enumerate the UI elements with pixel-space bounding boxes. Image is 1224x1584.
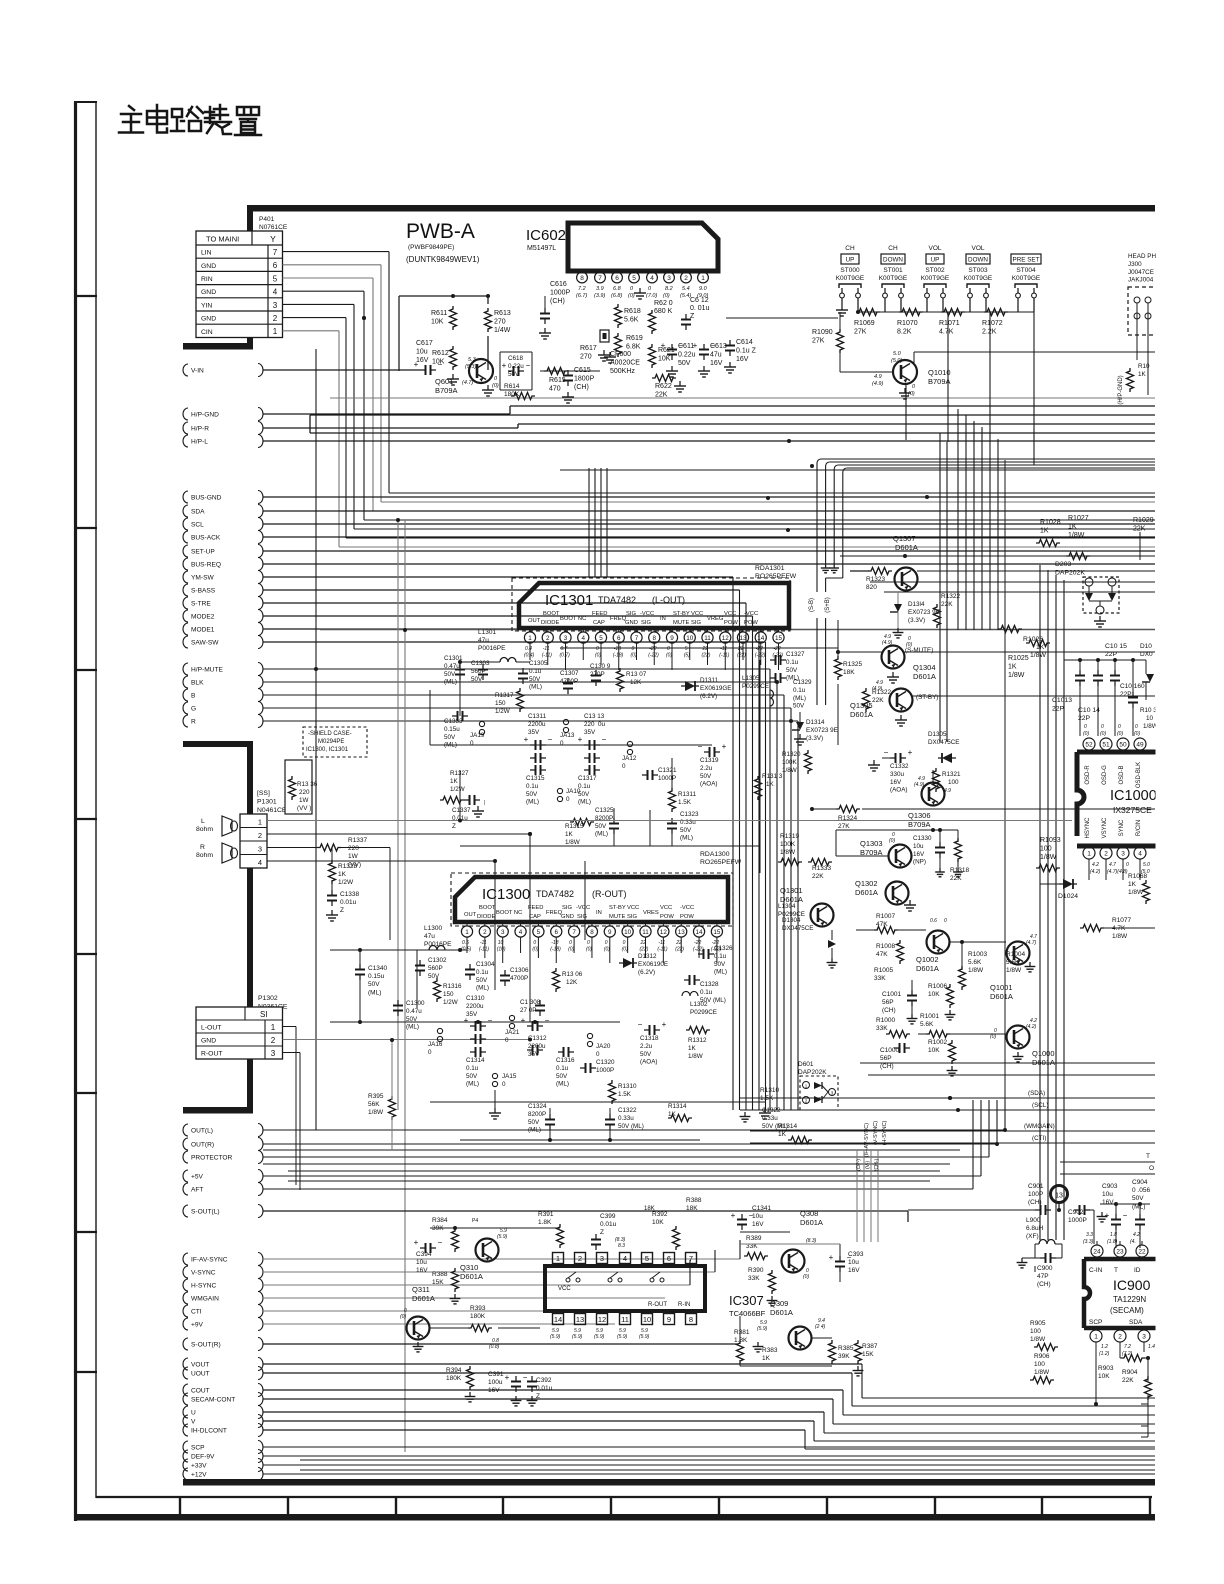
resistor R1316 150 1/2W [434,978,463,1006]
svg-text:16V: 16V [752,1221,764,1228]
wire SCL line [740,1102,1155,1112]
svg-text:(22): (22) [675,947,684,953]
svg-text:R1310: R1310 [618,1083,637,1090]
svg-text:−: − [638,1020,643,1029]
svg-text:(S-B): (S-B) [809,598,815,612]
svg-text:35V: 35V [528,729,540,736]
svg-text:22: 22 [1138,1248,1146,1255]
svg-text:0.33u: 0.33u [618,1115,634,1122]
switch ST003 K00T9GE [964,245,993,298]
svg-text:CH: CH [888,245,898,252]
svg-text:R1072: R1072 [982,320,1003,327]
svg-text:3: 3 [271,1049,276,1058]
capacitor C391 100u 16V [488,1371,528,1406]
svg-text:6.8: 6.8 [613,286,622,292]
svg-text:7: 7 [572,929,576,936]
svg-text:D601A: D601A [916,964,939,973]
svg-text:JA19: JA19 [470,732,485,739]
resistor R1068 1K 1/8W [1128,873,1163,904]
svg-text:D1304: D1304 [782,917,801,924]
connector J300 HEAD PHONE jack [1118,253,1162,405]
svg-text:0.1u: 0.1u [476,969,489,976]
svg-text:(CH): (CH) [880,1063,894,1070]
svg-text:16V: 16V [416,357,429,364]
svg-text:H-SYNC: H-SYNC [191,1282,217,1289]
svg-text:560P: 560P [428,965,443,972]
wire C901 feed [908,1209,1035,1211]
capacitor C1326 0.1u 50V (ML) [698,945,733,976]
svg-text:(-18): (-18) [550,947,561,953]
svg-text:5: 5 [645,1254,649,1263]
capacitor C392 0.01u Z [527,1376,553,1406]
transistor Q1307 [895,568,1156,591]
svg-text:3: 3 [1121,850,1125,857]
svg-text:560P: 560P [471,668,486,675]
svg-text:(0): (0) [595,653,601,659]
svg-text:-VCC: -VCC [744,611,758,617]
svg-text:50V: 50V [714,961,726,968]
terminal UOUT [183,1367,263,1380]
svg-text:C10 15: C10 15 [1105,643,1127,650]
svg-text:R1311: R1311 [678,791,697,798]
svg-text:500KHz: 500KHz [610,368,635,375]
svg-text:EX06190E: EX06190E [638,961,668,968]
svg-text:RIN: RIN [201,276,213,283]
svg-text:(L-OUT): (L-OUT) [652,595,685,605]
terminal H-SYNC [183,1279,263,1292]
diode D203 DAP202K [1055,561,1119,627]
svg-text:(1.8): (1.8) [1107,1239,1118,1245]
transistor Q1305 D601A (ST-BY) [850,680,1155,726]
terminal VOUT [183,1358,263,1371]
capacitor C1341 10u 16V [731,1205,772,1230]
svg-text:0: 0 [623,940,626,946]
resistor R388 15K [432,1268,460,1304]
svg-text:R1314: R1314 [668,1103,687,1110]
svg-text:-VCC: -VCC [680,905,694,911]
svg-text:R1027: R1027 [1068,515,1089,522]
svg-text:R1321: R1321 [942,771,961,778]
svg-text:OUT: OUT [464,912,477,918]
svg-text:8ohm: 8ohm [196,826,213,833]
resistor R617 270 [540,345,600,371]
transistor Q1301 D601A [780,886,834,927]
resistor R1073 [1127,363,1151,392]
svg-text:1/8W: 1/8W [1112,933,1128,940]
svg-text:2: 2 [684,275,688,282]
svg-text:D601A: D601A [855,888,878,897]
resistor R1072 2.2K [982,309,1008,336]
svg-text:D10: D10 [1140,643,1152,650]
diode D1024 [1040,879,1078,900]
wire WMGAIN line [750,1123,1155,1131]
svg-text:R1312: R1312 [688,1037,707,1044]
svg-text:50V: 50V [368,981,380,988]
svg-text:16V: 16V [1102,1199,1114,1206]
svg-text:(4.9): (4.9) [872,686,883,692]
resistor R1001 5.6K [920,1013,950,1038]
svg-text:0: 0 [470,740,474,747]
resistor R905 100 1/8W [1030,1320,1084,1351]
resistor R618 5.6K [615,304,641,328]
svg-text:(0): (0) [1117,731,1123,737]
terminal S-TRE [183,597,263,610]
svg-text:27K: 27K [838,823,850,830]
svg-text:10: 10 [1146,715,1154,722]
svg-text:−: − [548,735,553,744]
capacitor C1302 560P 50V [415,957,447,980]
capacitor C1330 10u 16V (NP) [913,830,945,877]
svg-text:R1068: R1068 [1128,873,1148,880]
svg-text:H/P-MUTE: H/P-MUTE [191,666,223,673]
svg-text:R13 36: R13 36 [297,781,318,788]
svg-text:−: − [698,742,703,751]
svg-text:CF600: CF600 [610,351,631,358]
svg-text:1: 1 [528,635,532,642]
terminal H/P-L [183,435,263,448]
svg-text:DIODE: DIODE [477,914,495,920]
svg-text:1K: 1K [338,871,347,878]
terminal IH-DLCONT [183,1424,263,1437]
svg-text:(5.9): (5.9) [497,1234,508,1240]
svg-text:C1303: C1303 [471,660,490,667]
wire S-OUT(L) [263,1211,908,1222]
resistor R1314b 1K [778,1123,812,1144]
svg-text:C1321: C1321 [658,767,677,774]
svg-text:47u: 47u [710,352,722,359]
terminal +33V [183,1459,263,1472]
svg-text:Q1307: Q1307 [893,534,916,543]
svg-text:R-IN: R-IN [678,1302,690,1308]
capacitor C1329 0.1u (ML) 50V [770,673,812,710]
svg-text:27K: 27K [812,338,825,345]
svg-text:L-OUT: L-OUT [201,1025,221,1032]
svg-text:1/8W: 1/8W [782,767,797,774]
svg-text:D601A: D601A [1032,1058,1055,1067]
svg-text:1.5K: 1.5K [760,1095,774,1102]
svg-text:(CP-): (CP-) [856,1159,862,1171]
wire mute lines [838,620,1155,745]
svg-text:4: 4 [650,275,654,282]
capacitor C1016 22P [1120,660,1145,736]
svg-text:C1332: C1332 [890,763,909,770]
svg-text:VCC: VCC [627,905,639,911]
svg-text:R1320: R1320 [782,751,801,758]
resistor R1325 18K [835,656,863,680]
svg-text:4: 4 [273,288,278,297]
svg-text:5.6K: 5.6K [968,959,982,966]
svg-text:SIG: SIG [691,620,701,626]
svg-text:0.15u: 0.15u [444,726,460,733]
svg-text:SIG: SIG [577,914,587,920]
svg-text:TC4066BF: TC4066BF [729,1309,766,1318]
capacitor C1000 56P (CH) [880,1043,910,1070]
svg-text:R1090: R1090 [812,329,833,336]
svg-text:12: 12 [722,635,730,642]
svg-text:4.7: 4.7 [1109,862,1116,868]
svg-text:R612: R612 [432,350,449,357]
svg-text:7: 7 [598,275,602,282]
wire bundle H/P group [263,398,1155,441]
terminal G [183,702,263,715]
svg-text:10u: 10u [416,349,428,356]
svg-text:R1004: R1004 [1006,951,1026,958]
svg-text:ST004: ST004 [1016,267,1036,274]
resistor R612 10K [432,346,459,385]
transistor Q1002 D601A [916,918,950,973]
svg-text:16V: 16V [710,360,723,367]
resistor R1328 1K 1/2W [329,848,358,887]
svg-text:C130 9: C130 9 [590,663,611,670]
svg-text:(6.2V): (6.2V) [700,693,717,700]
resistor R1004 5.6K 1/8W [1006,951,1026,974]
svg-text:(CH): (CH) [574,384,589,391]
svg-text:TDA7482: TDA7482 [598,595,636,605]
svg-text:35V: 35V [466,1011,478,1018]
svg-text:R1029: R1029 [1133,517,1154,524]
svg-text:0: 0 [1101,724,1104,730]
svg-text:D203: D203 [1055,561,1071,568]
svg-text:1: 1 [1094,1333,1098,1340]
wire bundle bottom right [1148,1414,1155,1416]
svg-text:S-OUT(L): S-OUT(L) [191,1208,220,1215]
svg-text:Q310: Q310 [460,1263,478,1272]
resistor R1025 1K 1/8W [1008,640,1050,680]
svg-text:(3.9): (3.9) [594,293,605,299]
svg-text:3.3: 3.3 [1086,1232,1093,1238]
capacitor C1314 0.1u 50V (ML) [466,1047,486,1088]
resistor R1090 27K [812,312,844,353]
svg-text:R13 07: R13 07 [626,671,647,678]
resistor R1008 47K [876,940,904,964]
terminal H/P-R [183,422,263,435]
svg-text:10: 10 [686,635,694,642]
svg-text:H/P-GND: H/P-GND [191,411,219,418]
svg-text:1.8: 1.8 [1110,1232,1117,1238]
svg-text:150: 150 [495,700,506,707]
svg-text:FEED: FEED [528,905,543,911]
svg-text:ST-BY: ST-BY [609,905,626,911]
svg-text:C614: C614 [736,339,753,346]
jumper JA20 [587,1033,610,1058]
svg-text:R394: R394 [446,1367,462,1374]
svg-text:(0.7): (0.7) [560,653,571,659]
svg-text:22P: 22P [1120,691,1132,698]
svg-text:EX0723 9E: EX0723 9E [806,727,838,734]
svg-text:RO265PEFW: RO265PEFW [755,573,797,580]
svg-text:R1001: R1001 [920,1013,940,1020]
svg-text:1: 1 [273,327,278,336]
svg-text:JA21: JA21 [505,1029,520,1036]
terminal B [183,689,263,702]
svg-text:IC1300: IC1300 [482,886,530,903]
svg-text:D601A: D601A [800,1218,823,1227]
svg-text:6: 6 [667,1254,671,1263]
capacitor C904 0.056 50V (ML) [1132,1179,1150,1248]
svg-text:J0047CE: J0047CE [1128,269,1154,276]
svg-text:0: 0 [587,940,590,946]
svg-text:OSD-R: OSD-R [1085,765,1091,785]
svg-text:(4.9): (4.9) [882,640,893,646]
svg-text:(0): (0) [889,838,895,844]
svg-text:C613: C613 [710,343,727,350]
svg-text:IX3275CE: IX3275CE [1113,805,1152,815]
svg-text:5: 5 [685,646,688,652]
resistor R390 33K [748,1267,777,1306]
svg-text:Z: Z [600,1229,604,1236]
svg-text:R388: R388 [432,1271,448,1278]
svg-text:1/2W: 1/2W [443,999,458,1006]
svg-text:10u: 10u [913,843,924,850]
svg-text:BOOT NC: BOOT NC [560,616,586,622]
svg-text:(ML): (ML) [680,835,693,842]
svg-text:+12V: +12V [191,1471,207,1478]
svg-text:R1000: R1000 [876,1017,896,1024]
transistor Q1302 D601A [855,879,916,911]
svg-text:(5.9): (5.9) [617,1334,628,1340]
svg-text:8.2: 8.2 [665,286,673,292]
svg-text:T: T [1114,1267,1118,1274]
labels vertical sync nets [864,1120,888,1157]
svg-text:R906: R906 [1034,1353,1050,1360]
svg-text:2: 2 [483,929,487,936]
svg-text:9: 9 [670,635,674,642]
svg-text:8: 8 [590,929,594,936]
svg-text:5.6K: 5.6K [624,317,639,324]
resistor R1071 4.7K [939,309,965,336]
svg-text:YIN: YIN [201,302,212,309]
svg-text:R-OUT: R-OUT [201,1051,223,1058]
svg-text:2200u: 2200u [528,721,546,728]
svg-text:VREG: VREG [707,616,724,622]
svg-text:C1320: C1320 [596,1059,615,1066]
svg-text:R131 3: R131 3 [762,773,783,780]
resistor R1319 100K 1/8W [778,833,802,866]
svg-text:10K: 10K [652,1219,664,1226]
svg-text:DOWN: DOWN [968,257,988,264]
svg-text:7: 7 [635,635,639,642]
terminal BLK [183,676,263,689]
wire T/O stub labels [1060,1153,1155,1174]
svg-text:(CTI): (CTI) [1032,1135,1046,1142]
svg-text:5.6K: 5.6K [1006,959,1020,966]
svg-text:UOUT: UOUT [191,1370,210,1377]
svg-text:(0): (0) [631,653,637,659]
svg-text:CTI: CTI [191,1308,202,1315]
svg-text:ST001: ST001 [883,267,903,274]
svg-text:L1305: L1305 [742,675,760,682]
diode D1314 EX0723 (3.3V) zener [890,592,940,638]
svg-text:CAP: CAP [593,620,605,626]
svg-text:0: 0 [1118,724,1121,730]
svg-text:5: 5 [537,929,541,936]
svg-text:15: 15 [775,635,783,642]
svg-text:0.47u: 0.47u [444,663,460,670]
resistor R389 33K [744,1235,768,1260]
capacitor C1309 270P [590,663,611,686]
svg-text:R1314: R1314 [778,1123,798,1130]
terminal H/P-GND [183,408,263,421]
svg-text:(4.7): (4.7) [1026,940,1037,946]
IC900 top pins 24-22 [1083,1232,1148,1257]
svg-text:V-SYNC: V-SYNC [191,1269,216,1276]
svg-text:(IF-AV-SYNC): (IF-AV-SYNC) [864,1123,870,1157]
svg-text:R1319: R1319 [780,833,800,840]
svg-text:IC1000: IC1000 [1110,788,1157,804]
svg-text:7: 7 [689,1254,693,1263]
svg-text:-22: -22 [694,940,701,946]
svg-text:BOOT: BOOT [543,611,560,617]
svg-text:49: 49 [1136,741,1144,748]
switch ST000 K00T9GE [836,245,865,298]
svg-text:C1013: C1013 [1052,697,1072,704]
capacitor C399 0.01u Z [591,1213,617,1250]
svg-text:50V: 50V [406,1016,418,1023]
svg-text:K00T9GE: K00T9GE [836,275,865,282]
svg-text:1/8W: 1/8W [1030,1336,1046,1343]
svg-text:COUT: COUT [191,1387,210,1394]
resistor R383 1K [753,1342,778,1362]
svg-text:POW: POW [744,620,758,626]
svg-text:Q1301: Q1301 [780,886,803,895]
svg-text:SYNC: SYNC [1119,819,1125,836]
svg-text:5.3: 5.3 [468,357,477,363]
svg-text:H/P-L: H/P-L [191,438,208,445]
svg-text:-22: -22 [774,646,781,652]
svg-text:+5V: +5V [191,1173,204,1180]
terminal U [183,1406,263,1419]
svg-text:−: − [488,1016,493,1025]
transistor Q1000 D601A [990,1018,1055,1067]
wire IC1301 lower rails [430,662,760,846]
svg-text:D1024: D1024 [1058,893,1078,900]
diode D1304 DX0475CE [782,917,837,968]
capacitor C1338 0.01u Z [326,880,360,921]
svg-text:O: O [1149,1165,1154,1172]
svg-text:R395: R395 [368,1093,384,1100]
svg-text:IC602: IC602 [526,227,566,244]
svg-text:R1026: R1026 [1023,636,1043,643]
svg-text:3: 3 [667,275,671,282]
svg-text:IC1300, IC1301: IC1300, IC1301 [306,747,349,753]
svg-text:C394: C394 [416,1251,432,1258]
svg-text:(5.9): (5.9) [639,1334,650,1340]
svg-text:R1328: R1328 [338,863,358,870]
svg-text:ST-BY: ST-BY [673,611,690,617]
svg-text:(PWBF9849PE): (PWBF9849PE) [408,244,454,251]
svg-text:M0294PE: M0294PE [318,739,344,745]
svg-text:6: 6 [554,929,558,936]
wire Q1307 line [840,534,1155,556]
svg-text:P401: P401 [259,216,275,223]
svg-text:47P: 47P [1037,1273,1049,1280]
svg-text:5.0: 5.0 [893,351,902,357]
svg-text:1: 1 [465,929,469,936]
svg-text:-VCC: -VCC [640,611,654,617]
svg-text:JA20: JA20 [596,1043,611,1050]
capacitor C1300 0.47u 50V (ML) [393,1000,425,1031]
svg-text:DX0475CE: DX0475CE [782,925,814,932]
capacitor C616 1000P (CH) [539,281,571,339]
svg-text:0: 0 [533,940,536,946]
svg-text:C-IN: C-IN [1089,1267,1103,1274]
svg-text:(ML): (ML) [444,679,457,686]
jumper JA15 [492,1073,516,1088]
svg-text:(0): (0) [568,947,574,953]
svg-text:D601A: D601A [460,1272,483,1281]
svg-text:270: 270 [494,319,506,326]
svg-text:+: + [505,1373,510,1382]
